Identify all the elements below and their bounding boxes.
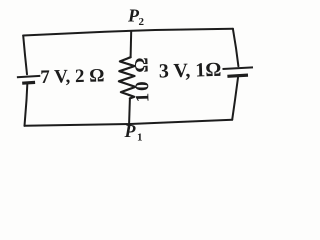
- svg-text:7 V, 2 Ω: 7 V, 2 Ω: [40, 65, 105, 88]
- wire bottom (node P1 rail): [25, 120, 233, 126]
- svg-text:3 V, 1Ω: 3 V, 1Ω: [159, 59, 222, 83]
- svg-text:10 Ω: 10 Ω: [131, 55, 153, 103]
- wire middle lower (resistor R to bottom rail junction): [128, 98, 131, 124]
- resistor R 10ohm zigzag: [119, 57, 136, 98]
- wire right upper (top-right corner to battery B2 +plate): [233, 29, 239, 67]
- svg-text:1: 1: [137, 132, 143, 144]
- battery B2 short plate (-): [227, 75, 248, 76]
- wire left lower (battery B1 -plate to bottom-left corner): [25, 85, 28, 126]
- battery B1 long plate (+): [17, 76, 40, 77]
- battery B1 short plate (-): [22, 81, 35, 85]
- wire middle upper (top rail junction to resistor R): [130, 31, 133, 57]
- wire right lower (battery B2 -plate to bottom-right corner): [232, 78, 238, 120]
- battery B2 long plate (+): [223, 67, 254, 69]
- svg-text:2: 2: [139, 16, 145, 28]
- svg-text:P: P: [124, 121, 137, 141]
- wire left upper (top-left corner to battery B1 +plate): [23, 36, 27, 75]
- wire top (node P2 rail): [23, 29, 233, 36]
